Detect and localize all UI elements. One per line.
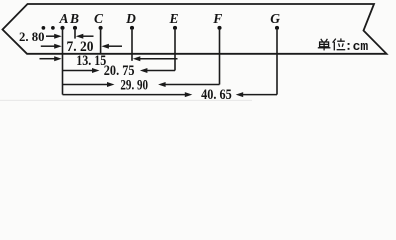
svg-text:C: C [94, 11, 104, 26]
svg-text:F: F [212, 11, 222, 26]
svg-text:29. 90: 29. 90 [120, 77, 148, 93]
svg-text:B: B [69, 11, 79, 26]
svg-text:2. 80: 2. 80 [19, 29, 45, 44]
svg-text:cm: cm [353, 39, 369, 54]
svg-text:A: A [58, 11, 68, 26]
svg-text:40. 65: 40. 65 [201, 87, 232, 103]
svg-text:13. 15: 13. 15 [76, 53, 106, 69]
svg-text:E: E [168, 11, 178, 26]
svg-text:G: G [270, 11, 280, 26]
svg-text:D: D [125, 11, 136, 26]
